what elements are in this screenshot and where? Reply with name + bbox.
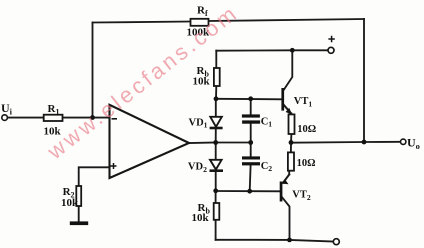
wire VT2 collector to bottom rail	[282, 197, 290, 240]
svg-text:Uo: Uo	[407, 135, 420, 151]
wire VT1 emitter lead	[284, 105, 291, 113]
svg-text:10Ω: 10Ω	[297, 124, 316, 135]
wire input from Ui to R1	[7, 117, 43, 119]
resistor Rf 100k	[187, 5, 211, 39]
wire R2 to ground	[78, 206, 80, 222]
wire diode chain VD1 upper lead	[215, 99, 217, 117]
wire right-side vertical to output node	[363, 19, 365, 142]
wire 10ohm R3 to output node	[290, 134, 292, 143]
terminal negative supply	[333, 239, 339, 245]
wire diode node to capacitor node	[216, 142, 251, 144]
node output mid junction at diode chain	[213, 140, 218, 145]
node bottom rail collector junction	[287, 238, 292, 243]
wire output node to VD2	[215, 143, 217, 161]
op-amp U1	[110, 105, 190, 178]
resistor R3 10ohm	[289, 114, 317, 134]
wire output node to Uo terminal	[291, 141, 400, 144]
resistor R1 10k	[44, 103, 63, 138]
capacitor C1	[242, 114, 272, 128]
transistor VT1	[281, 88, 312, 115]
wire VT2 base node to base	[216, 190, 280, 192]
node feedback tap on output wire	[362, 140, 367, 145]
resistor R2 10k	[61, 186, 81, 209]
wire VT2 emitter lead	[283, 175, 289, 183]
svg-text:Ui: Ui	[1, 101, 13, 117]
svg-text:10Ω: 10Ω	[297, 158, 316, 169]
svg-text:10k: 10k	[193, 75, 211, 87]
wire C1 bottom lead	[250, 124, 252, 143]
ground	[70, 221, 88, 225]
wire bottom negative rail	[216, 240, 334, 242]
wire C2 bottom lead	[249, 165, 252, 191]
svg-text:10k: 10k	[61, 197, 79, 209]
wire VD1 to output node	[215, 128, 217, 143]
wire positive rail corner down to Rb	[215, 51, 217, 68]
diode VD1	[189, 117, 223, 130]
terminal Uo output	[401, 135, 420, 151]
svg-text:C1: C1	[261, 116, 273, 128]
node output junction between 10ohm resistors	[289, 140, 294, 145]
terminal Ui input	[1, 101, 13, 120]
node C1 top junction	[248, 96, 253, 101]
capacitor C2	[242, 156, 272, 173]
wire R1 to inverting input	[63, 117, 110, 119]
resistor Rb 10k	[193, 65, 220, 87]
terminal positive supply	[328, 36, 335, 54]
svg-text:VD1: VD1	[189, 117, 208, 129]
svg-text:VT1: VT1	[294, 96, 313, 108]
svg-text:VD2: VD2	[188, 162, 207, 174]
wire output node to 10ohm R4	[290, 143, 292, 153]
wire positive supply rail	[216, 49, 328, 51]
svg-text:VT2: VT2	[292, 190, 311, 202]
wire noninverting input to R2	[79, 167, 110, 186]
wire top feedback right segment	[209, 19, 365, 21]
wire opamp output to diode node	[189, 142, 216, 145]
node C2 bottom junction	[247, 189, 252, 194]
node A inverting input junction	[90, 115, 95, 120]
wire VD2 to VT2 base node	[215, 171, 217, 191]
wire C2 top lead	[250, 143, 252, 157]
wire top feedback left segment	[93, 22, 191, 23]
svg-text:10k: 10k	[192, 212, 210, 224]
svg-text:R1: R1	[48, 103, 60, 117]
svg-text:C2: C2	[261, 161, 273, 173]
wire C1 top lead	[250, 99, 252, 115]
node VT2 base junction	[213, 188, 218, 193]
resistor R4 10ohm	[288, 152, 316, 170]
wire feedback vertical left	[92, 23, 94, 118]
resistor Re 10k	[192, 202, 220, 224]
node VT1 base junction	[214, 96, 219, 101]
wire VT1 base node to base	[216, 98, 281, 101]
wire emitter to 10ohm R3	[290, 113, 292, 116]
transistor VT2	[280, 179, 311, 202]
node positive rail collector junction	[290, 48, 295, 53]
node capacitor mid junction	[248, 140, 253, 145]
diode VD2	[188, 160, 223, 174]
wire Rb to VT1 base node	[215, 86, 217, 99]
wire Re to bottom rail	[215, 220, 217, 240]
wire VT2 base node down to Re	[215, 191, 217, 203]
wire VT1 collector to positive rail	[284, 50, 292, 89]
wire 10ohm R4 to VT2 emitter	[288, 171, 290, 175]
